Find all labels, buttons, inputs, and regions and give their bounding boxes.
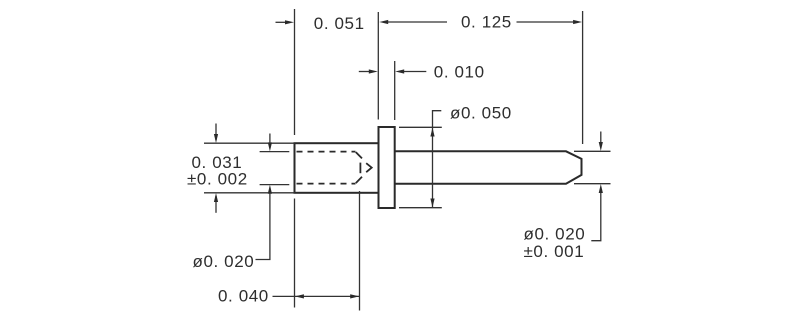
svg-text:ø0. 020: ø0. 020 (524, 225, 586, 244)
svg-text:0. 051: 0. 051 (314, 14, 365, 33)
svg-text:0. 010: 0. 010 (434, 63, 485, 82)
svg-text:±0. 002: ±0. 002 (187, 170, 248, 189)
svg-text:0. 125: 0. 125 (461, 13, 512, 32)
svg-text:0. 040: 0. 040 (218, 287, 269, 306)
svg-text:ø0. 020: ø0. 020 (193, 252, 255, 271)
svg-text:±0. 001: ±0. 001 (524, 242, 585, 261)
svg-text:ø0. 050: ø0. 050 (450, 103, 512, 122)
